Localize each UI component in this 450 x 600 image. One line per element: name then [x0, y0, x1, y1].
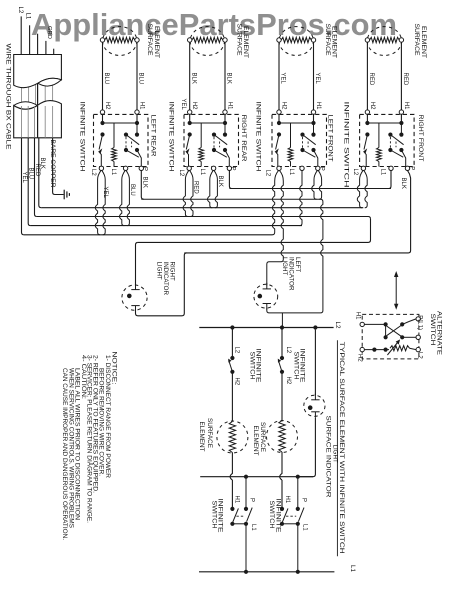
svg-text:L2: L2	[352, 169, 358, 176]
S4 P internal wire	[401, 150, 405, 167]
sub-mid lower contact H1-P-L1	[297, 477, 299, 509]
bus line YEL y234.8	[24, 234, 273, 236]
S3 contact blade upper	[303, 135, 316, 145]
alternate switch L1 link	[402, 336, 416, 338]
S4 P exit wire BLK	[405, 166, 409, 170]
surface element E2 dashed outline	[190, 27, 224, 56]
supply wires L2 L1 N GRD entering top	[20, 16, 22, 54]
S4 L2 contact arm	[365, 132, 369, 136]
wire S3 L2 right side to left indicator light	[267, 171, 284, 286]
svg-text:SURFACE INDICATOR: SURFACE INDICATOR	[324, 416, 331, 499]
svg-text:SURFACE: SURFACE	[206, 418, 213, 448]
svg-text:P: P	[318, 167, 324, 171]
vertical link RED to y242.4 at x370.5	[370, 219, 372, 240]
S2 L2 contact arm	[188, 132, 192, 136]
wire E1 left lead	[102, 42, 104, 110]
sub-left lower contact H1-P-L1	[245, 477, 247, 509]
left indicator light	[254, 284, 278, 308]
sub-diagram middle infinite switch H2 contact	[281, 328, 283, 359]
svg-text:BLU: BLU	[138, 73, 144, 85]
alternate switch crossed blades	[387, 326, 402, 336]
svg-text:L2: L2	[285, 347, 291, 354]
sub-mid element to H1 wire with hop	[280, 452, 282, 509]
junction dot rail x232.7	[230, 325, 234, 329]
S1 P internal wire	[137, 150, 141, 167]
svg-text:LEFT FRONT: LEFT FRONT	[326, 115, 333, 162]
wires inside lower block	[21, 106, 23, 138]
svg-text:GRD: GRD	[46, 26, 52, 39]
svg-text:L1: L1	[250, 524, 256, 531]
wire E4 left lead	[366, 42, 368, 110]
L2 rail	[199, 327, 333, 329]
svg-text:YEL: YEL	[280, 73, 286, 85]
sub-diagram middle surface element coil	[279, 421, 285, 453]
svg-text:P: P	[408, 166, 414, 170]
svg-text:P: P	[249, 498, 255, 502]
svg-text:L1: L1	[110, 169, 116, 176]
alternate switch H2 row	[364, 349, 389, 351]
bus line BLU y225.6	[31, 225, 302, 227]
svg-text:L1: L1	[199, 169, 205, 176]
svg-text:SWITCH: SWITCH	[248, 352, 255, 380]
S3 P internal wire	[314, 150, 318, 167]
right indicator light	[122, 285, 147, 310]
wire BLU from BX to bus	[28, 138, 30, 226]
svg-text:BLK: BLK	[226, 73, 232, 84]
svg-text:H1: H1	[315, 102, 321, 110]
surface element E4 terminal right	[399, 38, 403, 42]
S1 internal H2-H1 link row	[102, 114, 104, 123]
svg-text:H2: H2	[233, 378, 239, 386]
S2 contact mechanical link	[219, 142, 221, 148]
svg-text:SURFACE: SURFACE	[259, 422, 266, 452]
S4 right contact pair dots	[400, 123, 402, 135]
svg-text:ELEMENT: ELEMENT	[252, 426, 259, 456]
alternate switch P link	[402, 322, 409, 325]
svg-text:H2: H2	[104, 102, 110, 110]
S2 internal H2-H1 link row	[189, 114, 191, 123]
svg-text:BLK: BLK	[217, 176, 223, 187]
surface element E3 terminal right	[311, 38, 315, 42]
title underline	[336, 340, 338, 556]
S3 L1 exit wire	[300, 166, 304, 170]
alternate switch terminal L1	[416, 335, 420, 339]
S2 P internal wire	[225, 150, 229, 167]
alternate switch terminal H2	[360, 347, 364, 351]
junction dot L1 rail left	[244, 570, 248, 574]
right indicator light feed wire	[136, 242, 138, 284]
svg-text:P: P	[229, 167, 235, 171]
svg-text:L1: L1	[349, 565, 356, 572]
junction dot rail x282	[280, 325, 284, 329]
surface indicator light wire from rail	[314, 330, 316, 396]
svg-text:BLK: BLK	[141, 177, 147, 188]
S4 contact mechanical link	[395, 142, 397, 148]
svg-text:RIGHT FRONT: RIGHT FRONT	[417, 115, 424, 162]
surface element E4 terminal left	[365, 38, 369, 42]
S4 internal H2-H1 link row	[366, 114, 368, 123]
svg-text:LEFT REAR: LEFT REAR	[150, 115, 157, 158]
svg-text:L2: L2	[17, 7, 24, 14]
surface indicator light	[304, 395, 325, 416]
infinite switch S3 dashed box	[272, 114, 327, 166]
wire right-indicator feed y242.4	[138, 240, 371, 242]
svg-text:YEL: YEL	[314, 73, 320, 85]
svg-text:BLU: BLU	[103, 73, 109, 85]
S1 contact blade lower	[126, 150, 139, 157]
bus line P net y199.2 with corner down to left indicator circuit	[141, 199, 323, 313]
infinite switch S2 terminal H1	[223, 110, 227, 114]
S2 cycling heater	[200, 123, 202, 148]
S2 right contact pair dots	[224, 123, 226, 135]
surface element E2 coil	[192, 37, 223, 42]
svg-text:L2: L2	[178, 170, 184, 177]
wire E4 right lead	[400, 42, 402, 110]
S1 L1 exit quick-connect	[123, 166, 127, 170]
bus line BLK y207.7	[41, 207, 363, 209]
infinite switch S1 terminal H2	[100, 110, 104, 114]
svg-text:LIGHT: LIGHT	[281, 257, 288, 275]
S1 contact mechanical link	[131, 142, 133, 148]
svg-text:P(L1): P(L1)	[417, 315, 423, 330]
sub-diagram left infinite switch H2 contact	[231, 328, 233, 359]
wire BARE COPPER to ground	[53, 138, 64, 195]
svg-text:BLK: BLK	[190, 73, 196, 84]
surface element E3 terminal left	[277, 38, 281, 42]
S4 L1 exit wire	[389, 166, 393, 170]
infinite switch S2 terminal H2	[188, 110, 192, 114]
wire RED from BX to bus	[35, 138, 37, 217]
junction dot rail x315.3	[313, 325, 317, 329]
svg-text:P: P	[141, 167, 147, 171]
svg-text:L1: L1	[288, 169, 294, 176]
infinite switch S1 terminal H1	[135, 110, 139, 114]
surface indicator light return	[298, 418, 316, 477]
S3 right contact pair dots	[313, 123, 315, 135]
svg-text:H1: H1	[233, 496, 239, 504]
pilot line y476.7	[200, 476, 313, 478]
junction dot L1 rail right	[296, 570, 300, 574]
S1 cycling heater	[113, 123, 115, 148]
alternate switch terminal L2	[416, 347, 420, 351]
right indicator light return wire	[136, 253, 187, 316]
svg-text:YEL: YEL	[102, 187, 108, 199]
svg-text:ELEMENT: ELEMENT	[198, 422, 205, 452]
svg-text:TYPICAL SURFACE ELEMENT WITH I: TYPICAL SURFACE ELEMENT WITH INFINITE SW…	[338, 342, 345, 554]
S4 contact blade upper	[390, 135, 403, 145]
S3 contact mechanical link	[307, 142, 309, 148]
alternate switch substitution arrow	[395, 277, 397, 305]
svg-text:RED: RED	[368, 73, 374, 86]
svg-text:L2: L2	[233, 347, 239, 354]
infinite switch S2 dashed box	[184, 114, 239, 166]
bus line L1 net y188.5	[229, 188, 391, 190]
S1 contact blade upper	[126, 135, 139, 145]
left indicator light branch to L2 rail	[281, 313, 283, 328]
svg-text:H2: H2	[191, 102, 197, 110]
infinite switch S4 terminal H1	[399, 110, 403, 114]
alternate switch wiper arm	[387, 342, 398, 356]
svg-text:H2: H2	[280, 102, 286, 110]
surface element E2 terminal right	[223, 38, 227, 42]
S1 right contact pair dots	[136, 123, 138, 135]
S1 L2 exit quick-connect	[99, 166, 103, 170]
svg-text:INFINITE SWITCH: INFINITE SWITCH	[255, 102, 262, 172]
svg-text:H2: H2	[369, 102, 375, 110]
svg-text:SWITCH: SWITCH	[429, 314, 436, 346]
svg-text:LIGHT: LIGHT	[156, 262, 163, 280]
svg-text:H1: H1	[403, 102, 409, 110]
S4 cycling heater	[378, 123, 380, 148]
S2 P exit wire	[227, 166, 231, 170]
BX cable block lower shell	[14, 101, 62, 138]
wire E3 left lead	[278, 42, 280, 110]
wire E3 right lead	[313, 42, 315, 110]
svg-text:L2: L2	[265, 170, 271, 177]
svg-text:INFINITE SWITCH: INFINITE SWITCH	[168, 102, 175, 172]
S4 contact blade lower	[390, 150, 403, 157]
surface element E1 terminal right	[135, 38, 139, 42]
svg-text:BARE COPPER: BARE COPPER	[49, 140, 55, 189]
svg-text:BLK: BLK	[39, 158, 45, 169]
svg-text:BLU: BLU	[129, 184, 135, 196]
svg-text:ELEMENT: ELEMENT	[331, 26, 338, 58]
surface element E1 terminal left	[100, 38, 104, 42]
infinite switch S4 terminal H2	[365, 110, 369, 114]
S2 L2 exit quick-connect	[187, 166, 191, 170]
svg-text:L2: L2	[90, 169, 96, 176]
surface element E4 coil	[370, 37, 400, 42]
svg-text:H1: H1	[354, 312, 360, 320]
svg-text:SURFACE: SURFACE	[324, 24, 331, 56]
alternate switch H1 row	[364, 323, 385, 325]
surface element E2 terminal left	[188, 38, 192, 42]
svg-text:H1: H1	[226, 102, 232, 110]
BX cable lens upper	[38, 78, 62, 86]
alternate switch resistor	[390, 346, 410, 351]
wire E1 right lead	[136, 42, 138, 110]
surface element E3 coil	[281, 37, 311, 42]
svg-text:SWITCH: SWITCH	[292, 352, 299, 380]
svg-text:SWITCH: SWITCH	[268, 501, 275, 529]
svg-text:H2: H2	[285, 377, 291, 385]
svg-text:INFINITE SWITCH: INFINITE SWITCH	[343, 102, 350, 188]
S3 internal H2-H1 link row	[278, 114, 280, 123]
S2 contact blade upper	[214, 135, 227, 145]
surface element E1 coil	[105, 37, 135, 42]
svg-text:BLK: BLK	[400, 178, 406, 189]
wire right-indicator return y252.9	[184, 251, 410, 253]
svg-text:SURFACE: SURFACE	[413, 24, 420, 56]
svg-text:CAN CAUSE IMPROPER AND DANGERO: CAN CAUSE IMPROPER AND DANGEROUS OPERATI…	[61, 368, 68, 540]
S3 L2 exit quick-connect split sleeve	[277, 166, 281, 170]
svg-text:H1: H1	[138, 102, 144, 110]
svg-text:P: P	[300, 498, 306, 502]
S2 L1 exit quick-connect	[211, 166, 215, 170]
surface element E3 dashed outline	[279, 27, 313, 56]
svg-text:L2: L2	[417, 352, 423, 359]
BX cable block upper shell	[14, 55, 62, 88]
infinite switch S4 dashed box	[360, 114, 415, 166]
S1 P exit wire BLK	[139, 166, 143, 170]
S2 contact blade lower	[214, 150, 227, 157]
junction dot pilot x297.8	[296, 475, 300, 479]
svg-text:L1: L1	[302, 524, 308, 531]
svg-text:RED: RED	[402, 73, 408, 86]
svg-text:WIRE THROUGH BX CABLE: WIRE THROUGH BX CABLE	[4, 44, 11, 150]
S3 P exit quick-connect	[316, 166, 320, 170]
L1 rail	[199, 571, 334, 573]
S4 L2 exit quick-connect	[361, 166, 365, 170]
S3 cycling heater	[290, 123, 292, 148]
BX cable lens lower	[14, 102, 38, 110]
S3 L2 contact arm	[277, 132, 281, 136]
svg-text:YEL: YEL	[21, 172, 27, 184]
sub-diagram left surface element coil	[229, 422, 235, 453]
svg-text:ELEMENT: ELEMENT	[153, 26, 160, 58]
infinite switch S1 dashed box	[94, 114, 149, 166]
alternate switch dashed box	[362, 314, 419, 359]
svg-text:L2: L2	[334, 322, 341, 329]
svg-text:ELEMENT: ELEMENT	[420, 26, 427, 58]
surface element E4 dashed outline	[367, 27, 401, 56]
alternate switch terminal P	[416, 317, 420, 321]
svg-text:H2: H2	[357, 354, 363, 362]
svg-text:SURFACE: SURFACE	[235, 24, 242, 56]
alternate switch terminal H1	[360, 322, 364, 326]
svg-text:L1: L1	[25, 13, 32, 20]
svg-text:H1: H1	[284, 496, 290, 504]
S3 contact blade lower	[303, 150, 316, 157]
ground symbol	[63, 190, 65, 200]
svg-text:RED: RED	[34, 164, 40, 177]
junction dot pilot x246	[244, 475, 248, 479]
wire E2 left lead	[189, 42, 191, 110]
sub-left element to H1 wire with hop	[230, 453, 232, 509]
svg-text:INFINITE SWITCH: INFINITE SWITCH	[79, 102, 86, 172]
S1 L2 contact arm	[100, 132, 104, 136]
svg-text:RED: RED	[192, 181, 198, 194]
svg-text:RIGHT REAR: RIGHT REAR	[240, 115, 247, 163]
svg-text:BLU: BLU	[28, 168, 34, 180]
svg-text:L1: L1	[380, 169, 386, 176]
wires inside BX cable block	[21, 56, 23, 137]
bus line RED y216.5	[37, 217, 371, 219]
wire YEL from BX to bus	[22, 138, 24, 235]
wire BLK from BX to bus	[39, 138, 41, 208]
infinite switch S3 terminal H1	[311, 110, 315, 114]
svg-text:SWITCH: SWITCH	[210, 501, 217, 529]
infinite switch S3 terminal H2	[277, 110, 281, 114]
surface element E1 dashed outline	[103, 27, 137, 56]
wire E2 right lead	[224, 42, 226, 110]
svg-text:SURFACE: SURFACE	[146, 24, 153, 56]
svg-text:ELEMENT: ELEMENT	[242, 26, 249, 58]
svg-text:YEL: YEL	[180, 99, 186, 111]
